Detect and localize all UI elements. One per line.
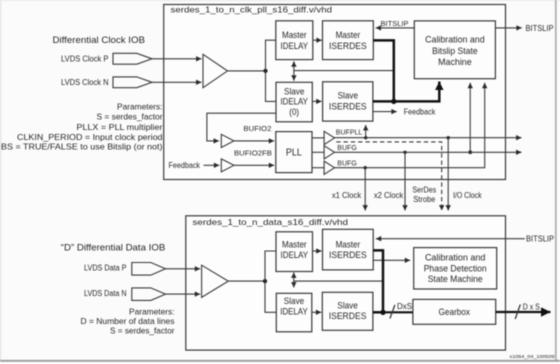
delay: Slave IDELAY box (data) <box>276 293 312 332</box>
svg-text:Calibration and: Calibration and <box>425 34 485 45</box>
svg-text:BS = TRUE/FALSE to use Bitslip: BS = TRUE/FALSE to use Bitslip (or not) <box>1 142 163 152</box>
junction ioclock tap <box>364 136 367 139</box>
wire node to Gearbox <box>383 311 413 313</box>
svg-text:Feedback: Feedback <box>404 107 436 116</box>
delay: Slave IDELAY box (clock) <box>276 82 312 122</box>
svg-text:LVDS Data N: LVDS Data N <box>84 289 127 298</box>
wire ioclock up to Slave ISERDES <box>365 125 367 138</box>
svg-text:BUFG: BUFG <box>337 158 357 167</box>
wire BUFG1 x2 clock exits right <box>335 151 522 153</box>
serdes: Slave ISERDES box (data) <box>322 292 373 330</box>
svg-text:I/O Clock: I/O Clock <box>453 191 483 200</box>
serdes: Slave ISERDES box (clock) <box>323 82 373 121</box>
svg-text:D x S: D x S <box>523 303 540 312</box>
wire Master ISERDES data out (thick, data) <box>373 250 383 312</box>
junction x2 clock tap <box>403 151 406 154</box>
image border top <box>0 0 560 2</box>
wire LVDS Data N to IBUFDS <box>166 293 201 295</box>
wire BITSLIP input to Master ISERDES (data) <box>376 238 525 240</box>
svg-text:serdes_1_to_n_data_s16_diff.v/: serdes_1_to_n_data_s16_diff.v/vhd <box>193 217 349 227</box>
buffer IBUFDS data <box>202 265 229 297</box>
svg-text:x1 Clock: x1 Clock <box>332 191 362 200</box>
svg-text:IDELAY: IDELAY <box>281 249 309 260</box>
bus slash output <box>515 305 520 320</box>
svg-text:Bitslip State: Bitslip State <box>432 45 478 56</box>
junction IBUFDS clock node <box>263 69 267 73</box>
wire PLL out 1 <box>312 151 324 153</box>
svg-text:PLLX = PLL multiplier: PLLX = PLL multiplier <box>77 122 163 132</box>
wire BUFIO2FB to PLL <box>234 164 274 166</box>
wire PLL out 0 <box>312 137 324 139</box>
wire x1 Clock down to data module <box>364 168 366 211</box>
buffer IBUFDS clock <box>203 54 228 87</box>
buffer BUFPLL <box>324 131 334 144</box>
state machine: Calibration and Bitslip box <box>414 21 495 79</box>
wire Slave ISERDES feedback out <box>373 111 397 113</box>
svg-text:Machine: Machine <box>438 56 472 67</box>
svg-text:IDELAY: IDELAY <box>280 305 308 316</box>
wire data branch vertical <box>265 251 276 312</box>
delay: Master IDELAY box (data) <box>276 232 313 272</box>
svg-text:Calibration and: Calibration and <box>425 251 486 262</box>
svg-text:S = serdes_factor: S = serdes_factor <box>110 326 175 336</box>
wire delay control to data node (data) <box>294 280 383 282</box>
image border right <box>555 0 557 361</box>
svg-text:Gearbox: Gearbox <box>439 306 471 317</box>
svg-text:BUFPLL: BUFPLL <box>336 128 363 137</box>
wire BUFG2 x1 clock to calibration <box>335 83 485 168</box>
svg-text:Phase Detection: Phase Detection <box>424 262 487 273</box>
wire Slave ISERDES join (thick) <box>373 311 383 314</box>
wire Master ISERDES data out (thick) <box>373 40 394 101</box>
svg-text:ISERDES: ISERDES <box>329 40 367 51</box>
junction data node (clock) <box>391 99 396 104</box>
buffer BUFG 2 <box>324 161 334 174</box>
parameters note (clock) <box>1 102 163 152</box>
wire IDELAY master-slave double arrow (clock) <box>293 61 295 80</box>
buffer BUFIO2FB <box>221 159 234 172</box>
wire Master IDELAY to Master ISERDES (data) <box>313 250 322 252</box>
buffer BUFG 1 <box>324 146 334 159</box>
wire I/O Clock down to data module <box>447 138 449 211</box>
svg-text:Slave: Slave <box>337 300 357 311</box>
pad LVDS Data P <box>132 263 166 276</box>
wire Slave IDELAY to Slave ISERDES (clock) <box>312 100 321 102</box>
svg-text:Feedback: Feedback <box>169 161 201 170</box>
pad LVDS Clock N <box>113 77 152 88</box>
parameters note (data) <box>81 307 175 336</box>
svg-text:BITSLIP: BITSLIP <box>381 19 409 28</box>
svg-text:LVDS Clock N: LVDS Clock N <box>61 78 109 87</box>
wire Feedback to BUFIO2FB buffer <box>204 164 220 166</box>
svg-text:PLL: PLL <box>286 148 302 159</box>
junction data node (data) <box>380 310 385 315</box>
junction IBUFDS data node <box>263 279 267 283</box>
delay: Master IDELAY box (clock) <box>276 21 313 60</box>
wire LVDS Clock N to IBUFDS <box>152 81 202 83</box>
svg-text:SerDes: SerDes <box>412 185 436 194</box>
wire calibration to BITSLIP output <box>495 27 521 29</box>
junction BUFG1 tap <box>468 150 472 154</box>
svg-text:Parameters:: Parameters: <box>117 102 163 112</box>
svg-text:Master: Master <box>336 29 361 40</box>
wire LVDS Data P to IBUFDS <box>166 268 201 270</box>
wire IBUFDS data output <box>228 280 265 282</box>
svg-text:Master: Master <box>282 29 307 40</box>
state machine: Calibration and Phase Detection box <box>414 248 497 289</box>
junction x1 clock tap <box>364 166 367 169</box>
junction I/O clock tap <box>447 136 450 139</box>
svg-text:DxS: DxS <box>397 301 412 311</box>
svg-text:serdes_1_to_n_clk_pll_s16_diff: serdes_1_to_n_clk_pll_s16_diff.v/vhd <box>171 5 333 15</box>
pad LVDS Data N <box>132 288 166 301</box>
wire SerDes strobe dashed <box>336 142 442 211</box>
svg-text:IDELAY: IDELAY <box>281 40 309 51</box>
svg-text:ISERDES: ISERDES <box>329 310 367 321</box>
svg-text:LVDS Clock P: LVDS Clock P <box>61 54 109 63</box>
wire Slave IDELAY to BUFIO2 <box>207 113 276 141</box>
module box serdes_1_to_n_data U2 <box>186 216 506 350</box>
wire x2 Clock down to data module <box>404 152 406 210</box>
wire clock branch vertical <box>266 40 277 101</box>
wire delay control to data node (clock) <box>294 70 394 72</box>
svg-text:Strobe: Strobe <box>413 195 436 204</box>
buffer BUFIO2 <box>221 134 234 147</box>
svg-text:ISERDES: ISERDES <box>329 249 367 260</box>
wire Master IDELAY to Master ISERDES (clock) <box>313 39 322 41</box>
label SerDes Strobe <box>412 185 436 204</box>
svg-text:Parameters:: Parameters: <box>129 307 175 317</box>
serdes: Master ISERDES box (data) <box>323 229 374 270</box>
svg-text:State Machine: State Machine <box>428 273 483 284</box>
image border bottom <box>0 360 560 362</box>
gearbox box <box>413 299 496 324</box>
module box serdes_1_to_n_clk_pll U1 <box>164 5 506 180</box>
svg-text:x2 Clock: x2 Clock <box>374 191 404 200</box>
wire PLL out 2 <box>312 167 324 169</box>
wire IBUFDS clock output <box>228 70 266 72</box>
pad LVDS Clock P <box>113 53 152 64</box>
svg-text:BITSLIP: BITSLIP <box>526 24 554 33</box>
svg-text:BUFG: BUFG <box>337 143 357 152</box>
bus slash DxS <box>390 305 395 319</box>
svg-text:Differential Clock IOB: Differential Clock IOB <box>53 34 146 45</box>
svg-text:IDELAY: IDELAY <box>280 96 308 107</box>
svg-text:“D” Differential Data IOB: “D” Differential Data IOB <box>61 242 166 253</box>
image border left <box>0 0 2 361</box>
wire IDELAY master-slave double arrow (data) <box>293 273 295 288</box>
wire BUFG1 tap to calibration <box>469 83 471 153</box>
wire Master ISERDES to phase detection <box>373 259 410 261</box>
svg-text:BUFIO2: BUFIO2 <box>243 124 271 133</box>
wire LVDS Clock P to IBUFDS <box>152 58 202 60</box>
svg-text:D = Number of data lines: D = Number of data lines <box>81 316 175 326</box>
wire BUFIO2 to PLL <box>234 140 274 142</box>
svg-text:S = serdes_factor: S = serdes_factor <box>97 112 163 122</box>
serdes: Master ISERDES box (clock) <box>323 21 374 60</box>
pll: PLL box <box>276 132 312 173</box>
wire BUFPLL ioclock exits right <box>335 137 522 139</box>
svg-text:BITSLIP: BITSLIP <box>526 234 554 243</box>
wire Slave IDELAY to Slave ISERDES (data) <box>312 311 322 313</box>
svg-text:x1064_04_100509: x1064_04_100509 <box>510 354 555 360</box>
svg-text:Slave: Slave <box>338 89 358 100</box>
wire Gearbox output D x S <box>496 311 551 313</box>
wire BITSLIP calibration to Master ISERDES <box>376 27 415 29</box>
svg-text:ISERDES: ISERDES <box>329 101 367 112</box>
svg-text:BUFIO2FB: BUFIO2FB <box>234 149 272 158</box>
wire data node to calibration (thick) <box>373 82 439 102</box>
svg-text:LVDS Data P: LVDS Data P <box>84 264 127 273</box>
svg-text:CLKIN_PERIOD = Input clock per: CLKIN_PERIOD = Input clock period <box>17 132 163 142</box>
svg-text:(0): (0) <box>289 106 299 117</box>
